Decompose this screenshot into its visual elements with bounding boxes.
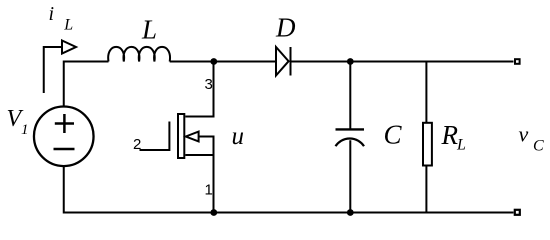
MOSFET body arrow head [186,132,199,142]
svg-text:3: 3 [205,76,213,93]
svg-text:u: u [232,123,245,150]
svg-text:L: L [456,136,466,153]
current arrow iL head [62,41,76,54]
wire MOSFET source vertical (node 1) [185,154,213,156]
wire V1 bottom to bottom rail [64,166,514,213]
capacitor C top lead [349,62,351,129]
MOSFET channel bar [178,114,184,158]
current arrow iL hook [44,47,63,93]
resistor RL top lead [425,62,427,123]
resistor RL body [423,123,432,166]
wire inductor to diode [170,61,276,63]
wire diode cathode to top-right terminal [291,61,514,63]
diode D triangle [276,47,289,76]
svg-text:C: C [384,119,403,149]
svg-text:2: 2 [133,136,141,153]
svg-text:L: L [141,14,157,44]
junction node capacitor top [347,58,354,65]
V1 minus sign [54,148,75,151]
diode D cathode bar [290,47,292,76]
svg-text:i: i [49,3,55,25]
junction node MOSFET source bottom [210,209,217,216]
svg-text:R: R [441,120,459,150]
svg-text:1: 1 [205,182,213,199]
output terminal bottom [515,210,520,215]
inductor L [108,47,170,62]
voltage source V1 circle [34,107,94,167]
wire MOSFET drain vertical (node 3) [185,62,213,117]
capacitor C top plate [336,128,365,130]
svg-text:C: C [533,137,544,154]
capacitor C bottom lead [349,140,351,212]
output terminal top [515,59,520,64]
svg-text:1: 1 [21,122,29,138]
wire top-left vertical from V1 to top rail [64,62,109,107]
svg-text:v: v [519,121,529,146]
capacitor C curved bottom plate [336,138,365,146]
junction node after inductor [210,58,217,65]
V1 plus sign [55,114,74,133]
svg-text:L: L [63,16,73,33]
MOSFET gate line [168,122,170,152]
svg-text:D: D [275,13,296,43]
wire gate lead (pin 2) [140,149,170,151]
junction node capacitor bottom [347,209,354,216]
wire MOSFET body arrow lead [198,137,214,213]
resistor RL bottom lead [425,166,427,213]
